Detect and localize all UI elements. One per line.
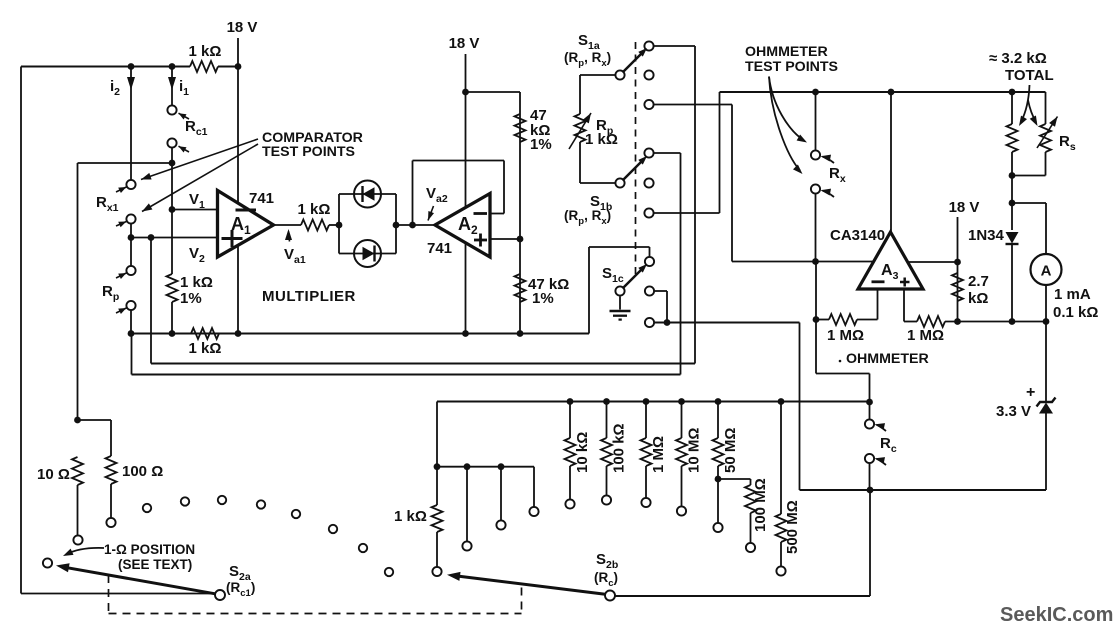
svg-text:OHMMETER: OHMMETER	[846, 351, 929, 367]
svg-text:1 kΩ: 1 kΩ	[394, 508, 427, 525]
svg-text:100 Ω: 100 Ω	[122, 463, 163, 480]
svg-text:18 V: 18 V	[949, 199, 980, 216]
svg-text:1 MΩ: 1 MΩ	[827, 327, 864, 344]
svg-text:1 mA: 1 mA	[1054, 286, 1091, 303]
svg-text:2.7: 2.7	[968, 273, 989, 290]
svg-text:1%: 1%	[180, 290, 202, 307]
svg-text:MULTIPLIER: MULTIPLIER	[262, 288, 356, 305]
svg-text:50 MΩ: 50 MΩ	[722, 428, 739, 473]
svg-text:1%: 1%	[530, 136, 552, 153]
svg-text:A: A	[1041, 263, 1052, 280]
svg-text:SeekIC.com: SeekIC.com	[1000, 604, 1113, 626]
svg-text:≈ 3.2 kΩ: ≈ 3.2 kΩ	[989, 50, 1047, 67]
svg-text:1 kΩ: 1 kΩ	[189, 43, 222, 60]
svg-text:CA3140: CA3140	[830, 227, 885, 244]
svg-text:OHMMETER: OHMMETER	[745, 44, 828, 60]
svg-text:1N34: 1N34	[968, 227, 1005, 244]
svg-text:10 kΩ: 10 kΩ	[574, 432, 591, 473]
svg-text:1 MΩ: 1 MΩ	[907, 327, 944, 344]
svg-text:1%: 1%	[532, 290, 554, 307]
svg-text:TEST POINTS: TEST POINTS	[745, 59, 838, 75]
svg-text:500 MΩ: 500 MΩ	[784, 500, 801, 554]
svg-text:100 kΩ: 100 kΩ	[611, 423, 628, 473]
svg-text:kΩ: kΩ	[968, 290, 988, 307]
svg-text:10 Ω: 10 Ω	[37, 466, 70, 483]
svg-text:10 MΩ: 10 MΩ	[686, 428, 703, 473]
svg-text:741: 741	[249, 190, 274, 207]
svg-text:18 V: 18 V	[227, 19, 258, 36]
svg-text:100 MΩ: 100 MΩ	[752, 478, 769, 532]
svg-text:(SEE TEXT): (SEE TEXT)	[118, 557, 192, 572]
svg-text:1 kΩ: 1 kΩ	[298, 201, 331, 218]
svg-text:1 kΩ: 1 kΩ	[180, 274, 213, 291]
svg-text:18 V: 18 V	[449, 35, 480, 52]
svg-text:1 kΩ: 1 kΩ	[189, 340, 222, 357]
svg-text:TEST POINTS: TEST POINTS	[262, 144, 355, 160]
svg-text:0.1 kΩ: 0.1 kΩ	[1053, 304, 1098, 321]
svg-text:+: +	[1026, 384, 1035, 401]
svg-text:1 kΩ: 1 kΩ	[585, 131, 618, 148]
svg-text:1-Ω POSITION: 1-Ω POSITION	[104, 542, 195, 557]
svg-text:3.3 V: 3.3 V	[996, 403, 1031, 420]
svg-text:741: 741	[427, 240, 452, 257]
svg-text:TOTAL: TOTAL	[1005, 67, 1054, 84]
svg-text:1 MΩ: 1 MΩ	[650, 436, 667, 473]
